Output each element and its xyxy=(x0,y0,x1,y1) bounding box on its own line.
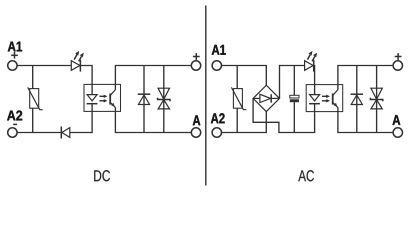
optocoupler U2 phototransistor xyxy=(333,90,339,108)
wire bridge plus to internal rail xyxy=(280,66,305,99)
polarity mark + under A1 xyxy=(11,52,18,59)
label A2 (AC) xyxy=(211,113,225,123)
optocoupler U2 coupling arrows xyxy=(322,95,330,103)
label AC xyxy=(298,170,314,181)
capacitor C1 (AC) xyxy=(290,95,299,102)
terminal A1 (AC) xyxy=(212,61,221,70)
LED indicator (DC input) xyxy=(71,51,84,72)
wire freewheel diode branch (DC out) xyxy=(143,66,145,133)
terminal A1 (DC) xyxy=(8,61,17,70)
terminal A (AC output) xyxy=(393,128,402,137)
terminal A2 (DC) xyxy=(8,128,17,137)
wire capacitor top branch xyxy=(293,66,295,96)
optocoupler U1 phototransistor xyxy=(110,90,116,108)
wire top rail A1 to bridge top vertex xyxy=(222,66,267,86)
terminal + (DC output) xyxy=(191,61,200,70)
wire capacitor bottom branch xyxy=(293,102,295,132)
wire diode to optocoupler LED cathode xyxy=(70,104,92,133)
wire bottom rail A2 to bridge bottom vertex xyxy=(222,112,267,133)
varistor RU2 (AC) xyxy=(231,87,246,109)
label A (DC output) xyxy=(193,115,201,125)
terminal A (DC output) xyxy=(191,128,200,137)
TVS suppressor diode (AC) xyxy=(370,88,382,109)
diode D3 output clamp (AC) xyxy=(351,94,364,104)
label A1 (DC) xyxy=(8,42,22,52)
wire varistor bottom branch xyxy=(32,108,34,132)
label + (DC output) xyxy=(193,53,200,60)
wire phototransistor emitter to output A rail (AC) xyxy=(338,108,393,133)
label A1 (AC) xyxy=(212,45,226,55)
wire phototransistor collector to output + rail (AC) xyxy=(338,66,393,90)
wire bottom rail A2 to diode xyxy=(17,132,61,134)
polarity mark - under A2 xyxy=(13,123,17,125)
wire phototransistor emitter to output A rail xyxy=(115,108,190,133)
terminal A2 (AC) xyxy=(212,128,221,137)
label A (AC output) xyxy=(392,115,400,125)
TVS suppressor diode (DC) xyxy=(158,88,170,109)
optocoupler U1 coupling arrows xyxy=(99,95,107,103)
wire varistor bottom branch (AC) xyxy=(236,108,238,132)
LED indicator (AC input) xyxy=(305,51,318,72)
wire bridge minus return rail to optocoupler LED cathode xyxy=(253,98,315,132)
wire LED cathode to optocoupler LED anode xyxy=(80,66,92,95)
diode D2 output clamp (DC) xyxy=(138,94,151,104)
wire varistor top branch xyxy=(32,66,34,89)
optocoupler U1 internal LED xyxy=(87,95,98,104)
wire varistor top branch (AC) xyxy=(236,66,238,89)
bridge rectifier B1 (AC) xyxy=(253,85,279,111)
optocoupler U2 internal LED xyxy=(309,95,320,104)
varistor RU1 (DC) xyxy=(28,87,43,109)
divider line between DC and AC sections xyxy=(205,6,207,186)
terminal + (AC output) xyxy=(393,61,402,70)
wire phototransistor collector to output + rail xyxy=(115,66,190,90)
label DC xyxy=(94,170,110,181)
wire top rail A1 to LED anode xyxy=(17,65,71,67)
label A2 (DC) xyxy=(7,110,22,120)
diode D1 series protection (bottom rail) xyxy=(61,127,70,139)
optocoupler U1 box (DC) xyxy=(84,84,121,111)
label + (AC output) xyxy=(395,53,402,60)
wire LED cathode to optocoupler LED anode (AC) xyxy=(313,66,316,95)
optocoupler U2 box (AC) xyxy=(306,85,343,112)
wire TVS branch (AC out) xyxy=(376,66,378,133)
wire TVS branch (DC out) xyxy=(163,66,165,133)
wire freewheel diode branch (AC out) xyxy=(356,66,358,133)
